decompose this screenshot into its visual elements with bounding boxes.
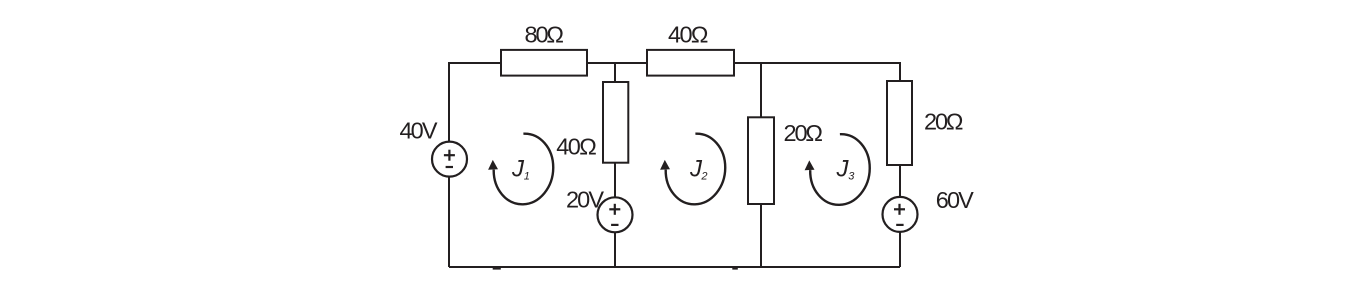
wire junction drop to R4 (760, 63, 762, 117)
wire 60V source to bottom rail (899, 232, 901, 267)
svg-text:1: 1 (524, 171, 530, 183)
mesh loop J2 arc (660, 134, 725, 205)
wire R3 to 20V source (614, 163, 616, 198)
wire top rail left: node A to 80ohm resistor (449, 63, 501, 142)
V1 minus sign (446, 166, 453, 168)
voltage source V2 20V circle (598, 197, 633, 232)
junction overlap mark left (493, 266, 501, 269)
mesh loop J3 arc (805, 134, 870, 205)
wire R5 to 60V source (899, 165, 901, 197)
V2 plus sign (609, 208, 620, 210)
wire between R1 and R2 with junction to 40ohm vertical (587, 62, 647, 64)
svg-text:3: 3 (848, 171, 855, 183)
wire R4 to bottom rail (760, 204, 762, 267)
svg-text:40Ω: 40Ω (668, 22, 709, 48)
wire top rail right: R2 to right branch (734, 63, 900, 81)
svg-text:60V: 60V (936, 187, 974, 213)
resistor R4 20ohm middle vertical (748, 117, 774, 204)
resistor R1 80ohm (501, 50, 587, 76)
wire 40V source to bottom rail (448, 176, 450, 267)
svg-text:40V: 40V (400, 118, 438, 144)
V2 minus sign (611, 224, 618, 226)
J1 arrowhead (488, 160, 498, 170)
resistor R2 40ohm horizontal (647, 50, 734, 76)
J3 arrowhead (805, 160, 815, 170)
svg-text:20Ω: 20Ω (924, 108, 964, 134)
V3 plus sign (894, 208, 905, 210)
wire bottom rail (449, 266, 900, 268)
J2 arrowhead (660, 160, 670, 170)
V3 minus sign (896, 224, 903, 226)
svg-text:40Ω: 40Ω (556, 134, 597, 160)
wire 20V source to bottom rail (614, 232, 616, 267)
svg-text:80Ω: 80Ω (525, 22, 565, 48)
svg-text:2: 2 (700, 170, 707, 182)
resistor R5 20ohm right vertical (887, 81, 912, 165)
junction overlap mark right (732, 266, 738, 269)
voltage source V3 60V circle (883, 197, 918, 232)
svg-text:20V: 20V (566, 187, 604, 213)
voltage source V1 40V circle (432, 142, 467, 177)
wire junction drop to R3 (614, 63, 616, 82)
mesh loop J1 arc (488, 134, 553, 205)
V1 plus sign (444, 150, 905, 225)
resistor R3 40ohm vertical (603, 82, 628, 163)
svg-text:20Ω: 20Ω (784, 120, 824, 146)
